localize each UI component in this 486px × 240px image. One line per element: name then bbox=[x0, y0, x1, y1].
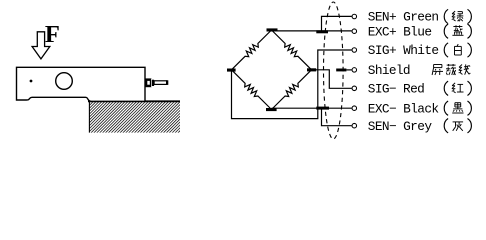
svg-text:SIG− Red: SIG− Red bbox=[368, 81, 425, 96]
svg-text:SEN+ Green: SEN+ Green bbox=[368, 10, 439, 25]
svg-text:SIG+ White: SIG+ White bbox=[368, 43, 439, 58]
svg-text:EXC− Black: EXC− Black bbox=[368, 101, 440, 116]
svg-text:EXC+ Blue: EXC+ Blue bbox=[368, 24, 432, 39]
svg-text:SEN− Grey: SEN− Grey bbox=[368, 119, 433, 134]
svg-text:F: F bbox=[45, 21, 60, 48]
svg-text:Shield: Shield bbox=[368, 63, 411, 78]
